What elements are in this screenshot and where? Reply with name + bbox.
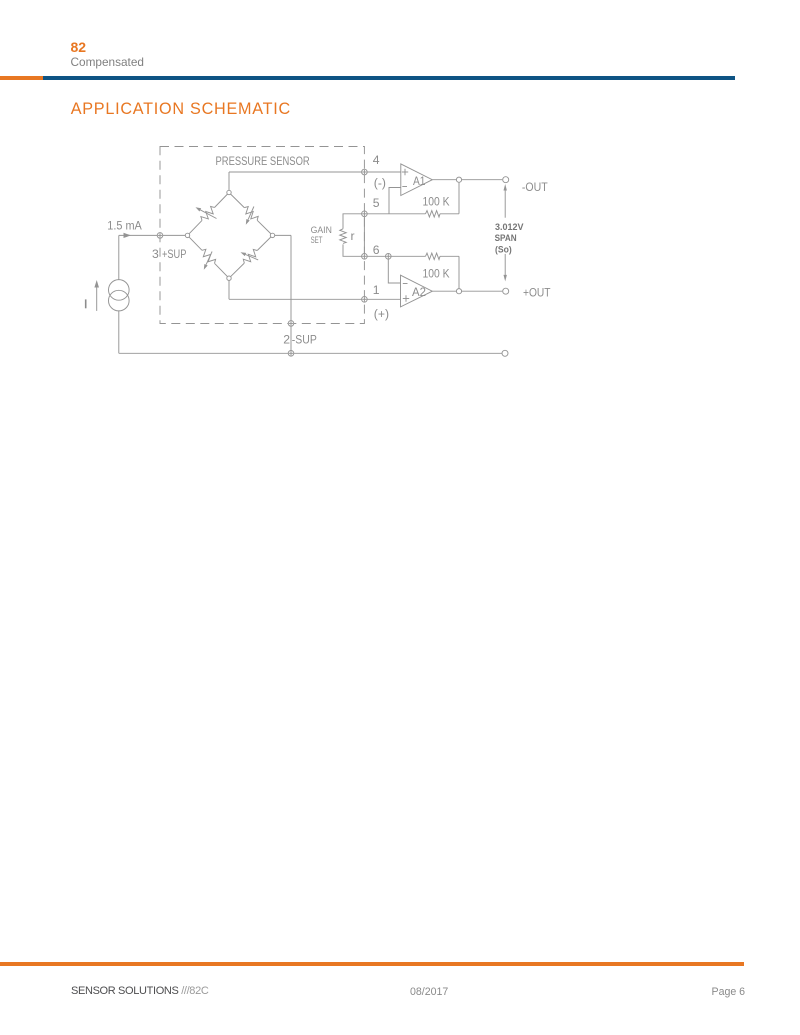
svg-text:4: 4 (373, 153, 380, 167)
resistor R1 100K (426, 211, 440, 217)
svg-text:1: 1 (373, 283, 380, 297)
svg-text:PRESSURE SENSOR: PRESSURE SENSOR (216, 154, 310, 168)
resistor RB2 (top-right gauge) (242, 205, 260, 223)
node pin 6 (362, 253, 368, 259)
svg-text:2: 2 (283, 333, 290, 347)
op-amp A2 (401, 275, 433, 307)
dashed sensor boundary box (160, 147, 364, 324)
svg-text:-SUP: -SUP (292, 333, 317, 347)
svg-text:1.5 mA: 1.5 mA (107, 219, 142, 233)
wire: link pin5 to pin6 on boundary (363, 214, 365, 256)
current source I1 (109, 280, 130, 301)
op-amp A1 minus input marker (402, 186, 407, 188)
svg-text:A2: A2 (412, 285, 426, 299)
current direction arrow (96, 287, 98, 311)
wire: A2 output (432, 290, 502, 292)
node pin 3 (157, 233, 163, 239)
bridge edge bottom-left (188, 235, 203, 250)
bridge edge bottom-right (229, 263, 244, 278)
svg-text:SET: SET (311, 235, 323, 245)
svg-text:5: 5 (373, 196, 380, 210)
svg-text:-OUT: -OUT (522, 180, 548, 194)
svg-text:6: 6 (373, 243, 380, 257)
resistor r (gain set) (340, 229, 346, 244)
section heading APPLICATION SCHEMATIC (71, 101, 291, 117)
footer left text (71, 986, 208, 997)
span arrow lower (504, 254, 506, 277)
wire: current source bottom vertical (118, 311, 120, 353)
svg-text:(+): (+) (374, 307, 389, 321)
resistor RB1 (top-left gauge) (199, 205, 217, 223)
node pin 2 on dashed edge (288, 321, 294, 327)
label 3.012V SPAN (So) (495, 222, 525, 254)
node: bridge top (227, 190, 231, 194)
resistor R2 100K (426, 253, 440, 259)
bottom -SUP rail (119, 352, 502, 354)
header rule orange segment (0, 76, 43, 80)
bridge edge top-left (188, 220, 203, 235)
wire: gain set loop (343, 214, 364, 229)
svg-text:+OUT: +OUT (523, 286, 551, 300)
svg-text:100 K: 100 K (423, 267, 450, 281)
svg-text:3.012V: 3.012V (495, 222, 524, 232)
wire: bridge bottom to pin 1 run (228, 278, 230, 299)
op-amp A1 plus input marker (402, 169, 408, 175)
wire: bridge top to pin 4 run (228, 172, 230, 193)
wire: current source top vertical (118, 235, 120, 279)
svg-text:GAIN: GAIN (311, 225, 332, 235)
span arrow upper (504, 188, 506, 218)
svg-text:+SUP: +SUP (162, 247, 186, 261)
node pin 5 (362, 211, 368, 217)
terminal -SUP rail end (502, 350, 508, 356)
arrowhead on feed wire (124, 233, 132, 238)
resistor RB3 (bottom-left gauge) (199, 248, 217, 266)
footer rule orange (0, 962, 744, 966)
header doc number 82 (71, 40, 87, 54)
terminal -OUT (503, 177, 509, 183)
wire: bridge right to -SUP bottom rail (273, 234, 292, 236)
wire: A1 minus input from pin 5 (389, 188, 401, 214)
svg-text:A1: A1 (413, 174, 426, 188)
svg-text:100 K: 100 K (423, 195, 450, 209)
header rule blue segment (43, 76, 735, 80)
terminal +OUT (503, 288, 509, 294)
op-amp A2 plus input marker (403, 295, 409, 301)
resistor RB4 (bottom-right gauge) (242, 248, 260, 266)
footer date (410, 987, 448, 998)
node A1 output junction (456, 177, 461, 182)
svg-text:(-): (-) (374, 176, 386, 190)
op-amp A1 (401, 164, 433, 196)
footer page number (712, 987, 746, 998)
svg-text:3: 3 (152, 247, 159, 261)
node on -SUP rail (288, 351, 294, 357)
node A2 output junction (456, 289, 461, 294)
wire: A1 output (432, 179, 502, 181)
wire: pin5 feedback row (364, 213, 425, 215)
svg-text:(So): (So) (495, 244, 512, 254)
bridge edge top-right (229, 193, 244, 208)
node pin 1 (362, 297, 368, 303)
label I (85, 299, 87, 308)
header subtitle Compensated (71, 57, 144, 69)
op-amp A2 minus input marker (403, 283, 408, 285)
wire: pin6 feedback row (364, 255, 425, 257)
node: bridge right (270, 233, 274, 237)
wire: A2 minus input from junction (388, 256, 400, 283)
wire: 1.5 mA feed to node 3 (119, 234, 188, 236)
svg-text:r: r (351, 229, 355, 243)
node pin 4 (362, 169, 368, 175)
node: bridge bottom (227, 276, 231, 280)
node: bridge left (185, 233, 189, 237)
node junction pin6 row (386, 253, 392, 259)
svg-text:SPAN: SPAN (495, 233, 517, 243)
